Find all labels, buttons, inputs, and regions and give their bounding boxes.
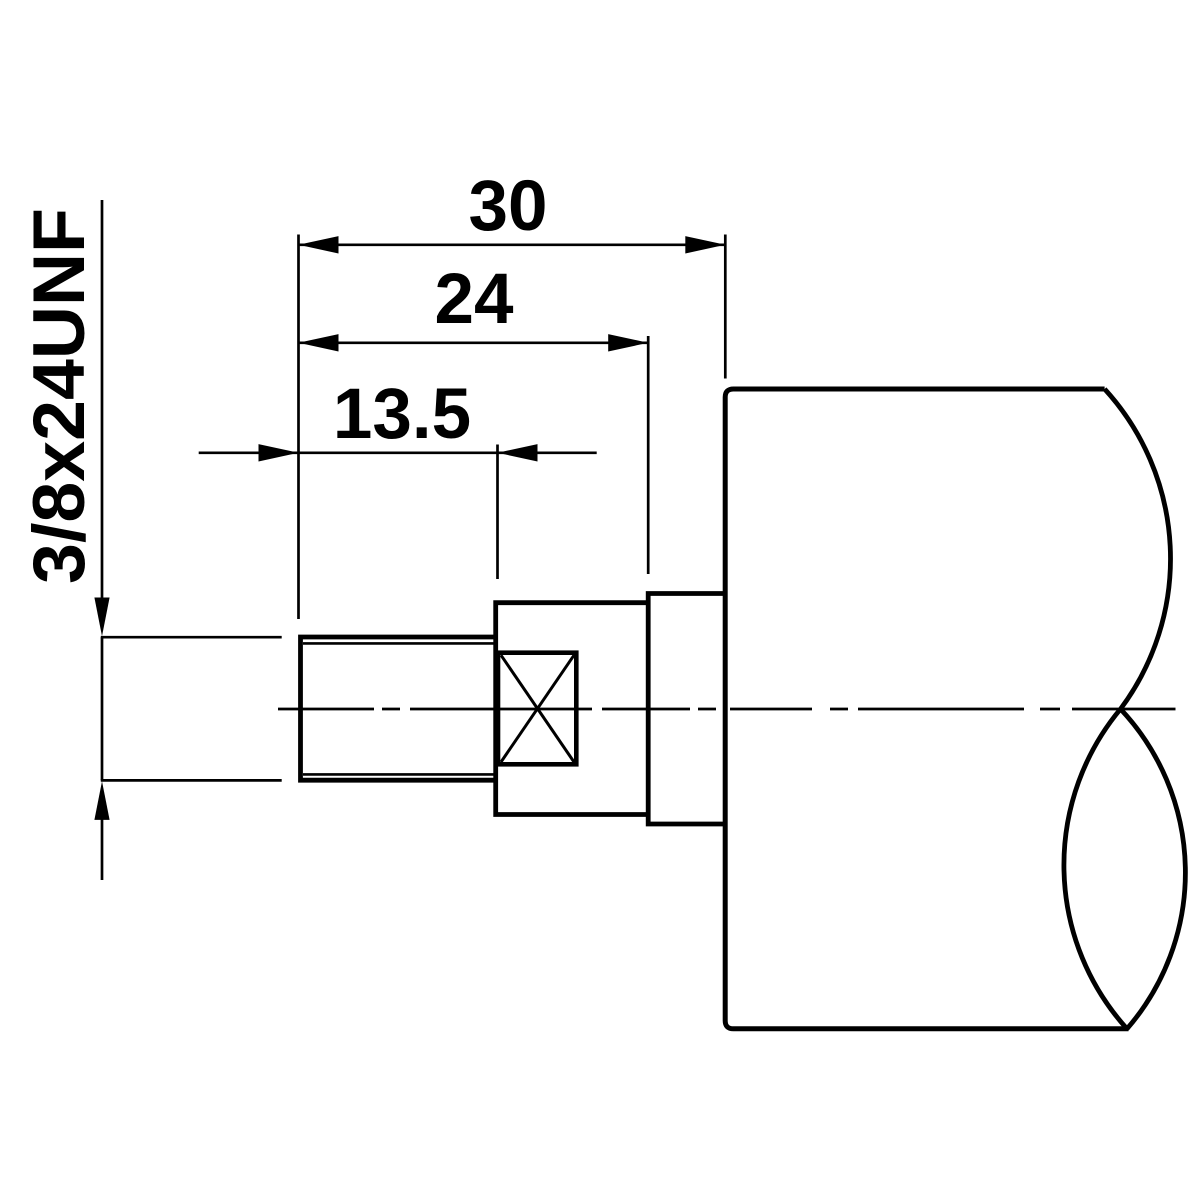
svg-text:3/8x24UNF: 3/8x24UNF [17,208,100,584]
dimension line 24 [299,341,649,344]
thread minor line top [303,642,496,645]
extension line ferrule left [496,445,499,580]
thread dia tick bottom [101,779,282,782]
arrowhead 24 right [608,334,648,351]
thread dia connector line [101,637,104,780]
arrowhead 13.5 left [259,444,299,461]
arrowhead 24 left [299,334,339,351]
body break lens right arc [1121,709,1186,1029]
arrowhead thread dia bottom [94,781,109,820]
thread dia tick top [101,636,282,639]
threaded stud outline [301,637,496,780]
arrowhead thread dia top [94,598,109,637]
collar [648,594,725,825]
svg-text:13.5: 13.5 [333,375,471,454]
body outline [725,389,1128,1029]
crimp box diagonal 2 [501,655,574,762]
crimp box [498,653,576,765]
extension line body left [724,235,727,379]
dimension line 13.5 [199,451,597,454]
body break curve upper [1105,389,1171,709]
thread minor line bottom [303,773,496,776]
arrowhead 30 left [299,236,339,253]
thread dia dimension line upper [101,200,104,610]
extension line left (rod end) [297,235,300,620]
centerline [278,708,1176,711]
crimp box diagonal 1 [501,655,574,762]
thread dia dimension line lower [101,812,104,880]
arrowhead 13.5 right [498,444,538,461]
svg-text:24: 24 [435,260,514,339]
extension line collar left [647,336,650,574]
svg-text:30: 30 [469,167,548,246]
dimension line 30 [299,243,726,246]
body break lens left arc [1064,709,1127,1029]
ferrule section [496,603,649,815]
arrowhead 30 right [685,236,725,253]
